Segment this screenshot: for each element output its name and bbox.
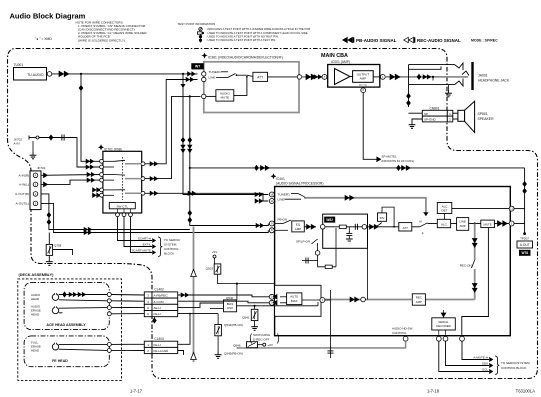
- jack body bar: [471, 62, 473, 90]
- wire TU junction down to IC401 TUNER1 pin: [183, 92, 268, 195]
- svg-text:Q541: Q541: [242, 316, 250, 320]
- svg-text:ALC: ALC: [441, 223, 448, 227]
- vertical from EQ network to REC line: [367, 214, 369, 299]
- test point below junction: [182, 74, 184, 92]
- svg-text:IC701 (X98): IC701 (X98): [104, 147, 122, 151]
- wire A-MUTE-H: [462, 341, 489, 359]
- svg-text:HEAD: HEAD: [31, 297, 39, 301]
- wires heads to right edge: [59, 294, 108, 296]
- svg-text:(FROM PIN 64 OF IC201): (FROM PIN 64 OF IC201): [382, 159, 414, 163]
- svg-text:MAIN CBA: MAIN CBA: [321, 53, 348, 59]
- svg-text:TU001: TU001: [14, 63, 24, 67]
- wire AE-H to bias osc: [178, 303, 224, 307]
- svg-text:TUNER1: TUNER1: [278, 193, 291, 197]
- svg-text:SYSTEM: SYSTEM: [164, 243, 177, 247]
- block EQ AMP: [292, 221, 305, 232]
- svg-text:DET: DET: [442, 208, 448, 212]
- wire IC701 out to IC401 LINE pin: [144, 193, 269, 201]
- svg-text:TUNER1: TUNER1: [209, 70, 222, 74]
- svg-text:Q540: Q540: [226, 296, 234, 300]
- svg-text:AE-H: AE-H: [154, 306, 161, 310]
- svg-text:D-REC-OFF: D-REC-OFF: [253, 338, 270, 342]
- svg-text:+5V: +5V: [212, 250, 217, 254]
- svg-text:W78: W78: [521, 251, 528, 255]
- svg-text:SP-GND: SP-GND: [424, 118, 437, 122]
- svg-text:SCART-MUTE: SCART-MUTE: [132, 249, 151, 253]
- erase head symbol: [52, 306, 58, 313]
- IC401 left pins: [269, 192, 274, 197]
- wires to A-OUT test point: [514, 208, 525, 210]
- svg-text:CONTROL: CONTROL: [392, 331, 407, 335]
- svg-text:AMP: AMP: [295, 227, 302, 231]
- svg-text:HEADPHONE JACK: HEADPHONE JACK: [478, 79, 510, 83]
- svg-text:T63100LA: T63100LA: [516, 389, 536, 394]
- svg-text:SPEAKER: SPEAKER: [478, 117, 495, 121]
- wire IC001 out to headphone jack: [385, 76, 468, 78]
- svg-text:LINE: LINE: [278, 198, 285, 202]
- svg-text:BLOCK: BLOCK: [164, 252, 174, 256]
- svg-text:JK701: JK701: [37, 166, 46, 170]
- svg-text:: INDICATES A TEST POINT WITH: : INDICATES A TEST POINT WITH A JUMPER W…: [206, 27, 311, 31]
- IC381 output pin: [297, 75, 301, 79]
- svg-text:FE-H-GND: FE-H-GND: [154, 349, 169, 353]
- wire SCART-H: [118, 217, 153, 241]
- svg-text:SDA: SDA: [482, 362, 488, 366]
- block INV: [378, 213, 387, 221]
- svg-text:(WIRE IS SOLDERED DIRECTLY): (WIRE IS SOLDERED DIRECTLY): [78, 38, 125, 42]
- wire IC701 out to IC381 LINE pin: [144, 80, 198, 164]
- svg-text:MUTE: MUTE: [221, 96, 230, 100]
- svg-text:Q546: Q546: [233, 343, 241, 347]
- block MUTE: [481, 220, 495, 228]
- svg-text:IC401: IC401: [276, 177, 285, 181]
- wire vertical to EQ input: [190, 96, 268, 225]
- block REC AMP: [425, 299, 474, 301]
- svg-text:EXT-L: EXT-L: [143, 243, 152, 247]
- external EQ network box: [323, 214, 368, 248]
- block ALC: [437, 219, 450, 227]
- svg-text:Q758: Q758: [54, 244, 62, 248]
- wire SP-MUTE1 from IC001 pin6: [363, 93, 376, 160]
- jack contacts: [455, 63, 463, 70]
- svg-text:TEST POINT INFORMATION: TEST POINT INFORMATION: [178, 22, 216, 26]
- svg-text:AMP: AMP: [360, 77, 367, 81]
- wire A-COM to IC401 pin2: [178, 301, 270, 303]
- svg-text:TP507: TP507: [520, 236, 529, 240]
- svg-text:SP801: SP801: [478, 112, 488, 116]
- wire TU junction down to IC701 pin1: [81, 74, 100, 161]
- svg-text:: USED TO INDICATE A TEST POIN: : USED TO INDICATE A TEST POINT WITH A C…: [206, 31, 309, 35]
- IC IC701 switch: [98, 144, 104, 150]
- wires JK701 A-OUT return lines: [41, 194, 190, 230]
- sub-circuit box auto bias: [275, 285, 321, 316]
- ground at JK702: [32, 141, 34, 152]
- grey PB main line: [305, 198, 426, 215]
- svg-text:(DECK ASSEMBLY): (DECK ASSEMBLY): [19, 273, 55, 277]
- label W7: [191, 63, 204, 69]
- block AUTO BIAS: [287, 293, 302, 305]
- svg-text:ATT: ATT: [257, 75, 263, 79]
- transistor Q542: [215, 325, 222, 336]
- grey REC line to heads: [277, 299, 413, 301]
- wire SDA: [446, 341, 490, 365]
- svg-text:HEAD: HEAD: [31, 312, 39, 316]
- wire TU-AUDIO to IC381: [52, 73, 198, 75]
- wire bias osc output: [237, 305, 318, 307]
- svg-text:A-OUT(R): A-OUT(R): [15, 192, 29, 196]
- svg-text:IC001 (AMP): IC001 (AMP): [331, 60, 350, 64]
- grey PB line down to REC line: [193, 227, 195, 363]
- svg-text:FE-H: FE-H: [154, 312, 161, 316]
- svg-text:MODE : SP/REC: MODE : SP/REC: [471, 39, 498, 43]
- svg-text:REC-AUDIO SIGNAL: REC-AUDIO SIGNAL: [417, 38, 461, 43]
- svg-text:SCL: SCL: [482, 368, 488, 372]
- svg-text:: USED TO INDICATE A TEST POIN: : USED TO INDICATE A TEST POINT WITH NO …: [206, 34, 279, 38]
- svg-text:1-7-17: 1-7-17: [130, 389, 143, 394]
- svg-text:SP/LP-ON: SP/LP-ON: [296, 239, 310, 243]
- svg-text:W7: W7: [195, 65, 200, 69]
- svg-text:TO SERVO/: TO SERVO/: [164, 238, 180, 242]
- resistor ATT: [399, 223, 412, 231]
- svg-text:REC-ON: REC-ON: [460, 264, 472, 268]
- svg-text:PB-ON: PB-ON: [278, 218, 288, 222]
- wire MUTE control down to A-MUTE pin: [462, 228, 489, 335]
- svg-text:A-COM: A-COM: [154, 300, 165, 304]
- full erase head symbol: [52, 343, 58, 350]
- wire SCART-MUTE: [131, 217, 153, 253]
- svg-text:: USED TO INDICATE A TEST POIN: : USED TO INDICATE A TEST POINT WITH A T…: [206, 38, 276, 42]
- svg-text:INV: INV: [380, 216, 385, 220]
- svg-text:A-PB/REC: A-PB/REC: [154, 294, 169, 298]
- svg-text:Audio Block Diagram: Audio Block Diagram: [10, 12, 86, 21]
- wire audio head to CL402 pin3: [111, 294, 144, 297]
- svg-text:TO SERVO/SYSTEM: TO SERVO/SYSTEM: [501, 361, 530, 365]
- svg-text:AMP: AMP: [459, 224, 465, 228]
- audio head symbol: [52, 293, 58, 300]
- IC401 right edge pins: [509, 206, 514, 211]
- svg-text:SW CTL: SW CTL: [116, 204, 128, 208]
- block LINE AMP: [457, 218, 469, 231]
- wire JK702 to IC701 pin2: [39, 138, 100, 168]
- legend PB-AUDIO SIGNAL: [343, 37, 355, 42]
- svg-text:A-IN: A-IN: [14, 142, 20, 146]
- wire IC701 out to IC381 AUDIO MUTE pin: [144, 96, 201, 178]
- ground at CN801: [412, 119, 422, 122]
- wire EXT-L: [124, 217, 152, 247]
- svg-text:SCART-H: SCART-H: [138, 237, 151, 241]
- svg-text:P: P: [422, 232, 424, 236]
- svg-text:BIAS: BIAS: [291, 299, 298, 303]
- svg-text:IC381 (VIDEO/AUDIO/CHROMA/DEF: IC381 (VIDEO/AUDIO/CHROMA/DEFLECTION/IF): [208, 56, 283, 60]
- svg-text:SWITCHING: SWITCHING: [253, 333, 271, 337]
- svg-text:PB-AUDIO SIGNAL: PB-AUDIO SIGNAL: [356, 38, 397, 43]
- IC IC401 (AUDIO SIGNAL PROCESSOR): [271, 173, 277, 179]
- wire IC381 to IC001: [302, 76, 323, 78]
- speaker SP801: [453, 112, 458, 114]
- wire long A-OUT line: [190, 167, 525, 169]
- svg-text:CL403: CL403: [154, 337, 164, 341]
- IC IC381 (VIDEO/AUDIO/CHROMA/DEFLECTION/IF): [202, 53, 208, 59]
- switch contacts inside IC701: [121, 157, 123, 200]
- svg-text:CN801: CN801: [430, 106, 440, 110]
- grey REC branch down: [474, 224, 476, 261]
- svg-text:SP: SP: [424, 112, 428, 116]
- svg-text:HEAD: HEAD: [31, 348, 39, 352]
- ground at jack: [448, 85, 450, 90]
- svg-text:FE HEAD: FE HEAD: [52, 359, 68, 363]
- block ALC DET: [437, 203, 452, 214]
- block OUTPUT AMP: [353, 71, 374, 83]
- IC401 bias pins: [269, 294, 274, 299]
- svg-text:"● " = XMD: "● " = XMD: [35, 37, 52, 41]
- wire EQ out / arrows to ATT: [367, 226, 399, 228]
- svg-text:A-IN(L): A-IN(L): [19, 183, 29, 187]
- FE head box: [24, 336, 109, 367]
- block SW CTL inside IC701: [109, 202, 135, 208]
- cap to ground in EQ network: [348, 227, 350, 233]
- svg-text:A-OUT(L): A-OUT(L): [16, 202, 29, 206]
- IC381 input pins: [202, 72, 206, 76]
- op-amp triangle inside IC001: [335, 69, 351, 85]
- svg-text:ACE HEAD ASSEMBLY: ACE HEAD ASSEMBLY: [46, 323, 86, 327]
- svg-text:JA001: JA001: [478, 74, 488, 78]
- svg-text:FE-H: FE-H: [154, 343, 161, 347]
- svg-text:CONTROL BLOCK: CONTROL BLOCK: [501, 366, 527, 370]
- svg-text:OSC: OSC: [227, 306, 233, 310]
- svg-text:1-7-18: 1-7-18: [427, 389, 440, 394]
- wires JK701 A-IN to IC701: [41, 174, 100, 177]
- svg-text:+6V: +6V: [268, 343, 273, 347]
- svg-text:LINE: LINE: [209, 75, 216, 79]
- resistor ATT inside IC381: [253, 72, 268, 81]
- svg-text:A-OUT: A-OUT: [520, 243, 530, 247]
- IC001 pins: [322, 75, 327, 80]
- svg-text:Q545(PB-ON): Q545(PB-ON): [224, 352, 243, 356]
- wire SCL: [439, 341, 489, 371]
- svg-text:ATT: ATT: [403, 226, 409, 230]
- svg-text:Q544(PB-ON): Q544(PB-ON): [224, 323, 243, 327]
- legend REC-AUDIO SIGNAL: [404, 37, 416, 42]
- svg-text:(AUDIO SIGNAL PROCESSOR): (AUDIO SIGNAL PROCESSOR): [276, 182, 324, 186]
- svg-text:TU-AUDIO: TU-AUDIO: [27, 73, 44, 77]
- svg-text:W82: W82: [326, 218, 333, 222]
- svg-text:DECODER: DECODER: [436, 324, 450, 328]
- wire Q503 to bias network: [218, 274, 275, 283]
- svg-text:A-MUTE-H: A-MUTE-H: [473, 356, 488, 360]
- block AUDIO MUTE inside IC381: [216, 90, 234, 101]
- svg-text:Q503: Q503: [206, 267, 214, 271]
- wire A-PB/REC to IC401 pin 1: [178, 295, 270, 297]
- ACE head assembly box: [24, 283, 109, 330]
- svg-text:MUTE: MUTE: [359, 83, 367, 87]
- pin on TU001 output: [47, 72, 52, 77]
- svg-text:MUTE: MUTE: [483, 223, 491, 227]
- svg-text:CONTROL: CONTROL: [164, 247, 179, 251]
- test points to speaker line: [406, 93, 411, 99]
- svg-text:A-IN(R): A-IN(R): [19, 173, 29, 177]
- jack JA001 frame lines: [409, 64, 455, 66]
- svg-text:AMP: AMP: [416, 300, 422, 304]
- block SERIAL DECODER: [432, 318, 456, 330]
- svg-text:CL402: CL402: [154, 288, 164, 292]
